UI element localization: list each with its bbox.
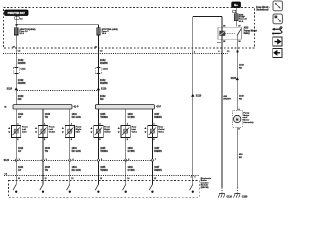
wire 2 labels upper xyxy=(100,59,106,62)
wire label 450 BK/WH on relay coil ground wire xyxy=(223,95,227,98)
wire bar to solenoid valve V1 xyxy=(15,109,17,126)
wire horizontal feed to fuse 2 xyxy=(16,24,98,26)
fuse F1 ABS Fuse 10 xyxy=(14,28,18,35)
pin B label below motor xyxy=(238,128,240,130)
svg-text:GY: GY xyxy=(18,170,22,172)
pin 4 label at relay output wire xyxy=(194,51,196,54)
connector stub under tag B+ xyxy=(233,10,236,13)
pin B label below valve V4 xyxy=(99,139,101,141)
relay K1 ABS pump motor relay (box) xyxy=(218,27,242,39)
solenoid valve V1 Front Left Inlet xyxy=(12,126,21,138)
power feed tag PWR/TRN BAT (black label box) xyxy=(5,10,28,16)
svg-text:S120: S120 xyxy=(4,160,10,162)
splice S110 arrow on wire 1 xyxy=(15,87,18,90)
pin A label above valve V3 xyxy=(71,123,73,126)
splice S185 arrow on pump feed wire xyxy=(236,77,239,80)
wire solenoid V5 return down to EBCM xyxy=(125,138,127,181)
module box EBCM (dashed outline) xyxy=(9,181,200,198)
wire label 1042 RD/BK (upper left) xyxy=(18,59,24,62)
svg-text:1042: 1042 xyxy=(18,59,24,62)
inline connector C115 on wire 1 (dashed box) xyxy=(13,68,19,74)
splice S110 arrow on relay output wire xyxy=(191,94,194,97)
icon zoom-extents (top right) xyxy=(273,1,282,11)
dotted splice link wire S110 to wire 2 xyxy=(17,90,98,92)
svg-text:PWR/TRN BAT: PWR/TRN BAT xyxy=(8,12,26,15)
wire solenoid V6 return down to EBCM xyxy=(151,138,153,181)
bus bar B (valve feed bar, pin 47-P) xyxy=(95,105,154,109)
svg-text:GY/BK: GY/BK xyxy=(128,151,136,153)
svg-text:TN: TN xyxy=(45,151,48,153)
svg-text:Fuse Block -: Fuse Block - xyxy=(256,7,270,9)
pin B label below valve V1 xyxy=(17,139,19,141)
dotted junction line S120 xyxy=(11,160,152,162)
driver switch Q6 inside EBCM xyxy=(151,181,153,185)
motor M1 ABS pump motor (dashed box with circle) xyxy=(232,111,242,128)
pin 11 label at connector line xyxy=(45,178,48,180)
bus bar A (valve feed bar, pin 41-P) xyxy=(13,105,72,109)
svg-text:BN/WH: BN/WH xyxy=(154,151,162,153)
wire bar to solenoid valve V2 xyxy=(42,109,44,126)
pin A label above valve V1 xyxy=(17,123,19,126)
svg-text:C115: C115 xyxy=(20,69,26,71)
junction diamond on test line at wire 4 xyxy=(97,159,100,162)
svg-text:B+: B+ xyxy=(234,3,238,7)
solenoid valve V5 Rear Inlet Valve xyxy=(121,126,130,138)
pin 2 label at EBCM wire connector crossing xyxy=(191,176,192,178)
svg-text:Rear: Rear xyxy=(132,127,137,129)
driver switch Q5 inside EBCM xyxy=(125,181,127,185)
svg-text:PUMP: PUMP xyxy=(239,17,246,19)
svg-text:and: and xyxy=(243,117,248,119)
svg-text:(EBCM): (EBCM) xyxy=(201,187,209,189)
inline connector C115 on wire 2 (dashed box) xyxy=(95,68,101,74)
pin 86 label xyxy=(223,26,226,28)
svg-text:GY/BK: GY/BK xyxy=(128,117,136,119)
icon previous page arrow xyxy=(273,48,282,57)
pin 36 / connector C2 label at wire 1 box exit xyxy=(12,46,15,48)
icon reroute arrows xyxy=(272,27,282,35)
pin B label below valve V3 xyxy=(71,139,73,141)
svg-text:DK GRN: DK GRN xyxy=(72,151,81,153)
power feed tag B+ (black label box top right) xyxy=(232,2,241,8)
fuse block box - Underhood Fuse Block (dashed outline) xyxy=(4,8,255,49)
relay actuation dotted link xyxy=(225,32,236,34)
svg-text:RD: RD xyxy=(18,98,22,101)
svg-text:TN/WH: TN/WH xyxy=(100,151,108,153)
svg-text:RD: RD xyxy=(100,98,104,101)
pin A label above motor xyxy=(238,108,240,111)
wire solenoid V3 return down to EBCM xyxy=(69,138,71,181)
wire solenoid V1 return down to EBCM xyxy=(15,138,17,181)
pin A label above valve V5 xyxy=(127,123,129,126)
wire label 450 BK xyxy=(239,153,243,156)
pin 10 label at connector line xyxy=(18,178,21,180)
relay coil xyxy=(220,31,225,36)
svg-text:1042: 1042 xyxy=(18,95,24,98)
svg-text:Fuse 10: Fuse 10 xyxy=(19,31,28,33)
pin A label above valve V6 xyxy=(153,123,155,126)
svg-text:Pump: Pump xyxy=(243,112,250,114)
svg-text:1042: 1042 xyxy=(100,59,106,62)
svg-text:RD: RD xyxy=(239,67,243,69)
junction diamond on test line at wire 2 xyxy=(42,159,45,162)
svg-text:G110: G110 xyxy=(226,196,232,198)
driver switch Q7 inside EBCM xyxy=(192,181,194,185)
svg-text:BK: BK xyxy=(239,157,243,159)
connector stub C4 under tag xyxy=(15,17,20,20)
node dot on pump feed at connector line xyxy=(236,50,238,52)
svg-text:RD: RD xyxy=(239,98,243,100)
pin 41 label left of bar A xyxy=(4,106,7,109)
wire bar to solenoid valve V6 xyxy=(151,109,153,126)
svg-text:2: 2 xyxy=(191,176,192,178)
wire label 1242 RD (lower) xyxy=(239,95,245,98)
pin C1 labels at fuse block exit xyxy=(218,50,220,53)
node junction dot at fuse 1 feed xyxy=(15,24,17,26)
relay name label xyxy=(244,26,249,29)
svg-text:GY: GY xyxy=(18,151,22,153)
driver switch Q1 inside EBCM xyxy=(15,181,17,185)
wire bar to solenoid valve V4 xyxy=(97,109,99,126)
svg-text:S110: S110 xyxy=(101,87,107,90)
svg-text:8: 8 xyxy=(194,176,195,178)
pin 13 label at connector line xyxy=(100,178,103,180)
splice S110 arrow on wire 2 xyxy=(97,87,100,90)
svg-text:G109: G109 xyxy=(242,196,248,198)
wire solenoid V2 return down to EBCM xyxy=(42,138,44,181)
junction diamond on test line at wire 3 xyxy=(68,159,71,162)
connector line C2 dotted above EBCM xyxy=(4,175,199,177)
icon zoom-window xyxy=(273,14,282,24)
junction diamond on test line at wire 1 xyxy=(15,159,18,162)
connector tick C1 below relay xyxy=(217,42,221,44)
pin 15 label at connector line xyxy=(154,178,157,180)
wire from tag down to bar A (left feed, circuit 1042) xyxy=(15,16,17,105)
svg-text:Valve: Valve xyxy=(132,131,138,133)
solenoid valve V4 Front Right Outlet xyxy=(94,126,103,138)
svg-text:S110: S110 xyxy=(7,87,13,90)
wire label 1042 RD/BK (below connector) xyxy=(18,79,24,82)
label Electronic Brake Control Module xyxy=(201,177,212,180)
svg-text:Valve: Valve xyxy=(158,131,164,133)
ground G109 xyxy=(236,188,238,194)
svg-text:RD/BK: RD/BK xyxy=(100,82,108,85)
svg-text:Module: Module xyxy=(201,185,209,187)
wire bar to solenoid valve V5 xyxy=(125,109,127,126)
solenoid valve V6 Rear Outlet Valve xyxy=(148,126,157,138)
fuse F3 ABS PUMP Fuse 34 xyxy=(234,14,238,21)
wire label 1042 RD (above bar A) xyxy=(18,95,24,98)
pin B label below valve V6 xyxy=(153,139,155,141)
junction diamond on test line at wire 5 xyxy=(124,159,127,162)
pin A label above valve V4 xyxy=(99,123,101,126)
svg-text:Underhood: Underhood xyxy=(256,10,269,12)
junction diamond on test line at wire 6 xyxy=(151,159,154,162)
svg-text:GY/BK: GY/BK xyxy=(128,170,136,172)
svg-text:DK GRN: DK GRN xyxy=(72,117,81,119)
svg-text:TN: TN xyxy=(45,170,48,172)
fuse F2 IGN Fuse 9 xyxy=(97,28,101,35)
connector line C2 (dotted) across harness xyxy=(3,53,228,55)
pin 85 label xyxy=(223,41,226,43)
svg-text:DK GRN: DK GRN xyxy=(72,170,81,172)
wire solenoid V4 return down to EBCM xyxy=(97,138,99,181)
pin 31 / connector C2 label at wire 2 box exit xyxy=(95,46,98,48)
svg-text:Rear: Rear xyxy=(158,127,163,129)
ground G110 xyxy=(221,188,223,194)
svg-text:S185: S185 xyxy=(231,78,237,80)
wire 2 label below connector xyxy=(100,79,106,82)
wire pump motor to ground G109 xyxy=(236,127,238,188)
svg-text:1042: 1042 xyxy=(100,95,106,98)
solenoid valve V3 Front Right Inlet xyxy=(65,126,74,138)
solenoid valve V2 Front Left Outlet xyxy=(38,126,47,138)
pin 30 label xyxy=(238,41,241,43)
relay switch contact xyxy=(237,29,241,36)
driver switch Q4 inside EBCM xyxy=(97,181,99,185)
svg-text:TN: TN xyxy=(45,117,48,119)
wire relay pin 30 down to pump motor xyxy=(236,36,238,111)
wire tag B+ down to fuse F3 xyxy=(235,8,237,27)
pin 87 label xyxy=(238,26,241,28)
wire coil feed from top run through relay pin 86 to ground xyxy=(221,17,223,188)
svg-text:RD/BK: RD/BK xyxy=(18,82,26,85)
wire label 1242 RD (upper) xyxy=(239,64,245,67)
wire relay output run (corner at top) to EBCM pin xyxy=(193,16,222,18)
svg-text:RD/BK: RD/BK xyxy=(18,62,26,65)
svg-text:GY: GY xyxy=(18,117,22,119)
pin 12 label at connector line xyxy=(71,178,74,180)
svg-text:BN/WH: BN/WH xyxy=(154,117,162,119)
svg-text:C115: C115 xyxy=(103,69,109,71)
svg-text:TN/WH: TN/WH xyxy=(100,170,108,172)
wire 2 label above bar B xyxy=(100,95,106,98)
svg-text:BK/WH: BK/WH xyxy=(223,99,231,101)
label Fuse Block - Underhood xyxy=(256,7,270,9)
svg-text:BN/WH: BN/WH xyxy=(154,170,162,172)
svg-text:1042: 1042 xyxy=(18,79,24,82)
svg-text:Brake: Brake xyxy=(201,180,208,182)
pin B label below valve V2 xyxy=(44,139,46,141)
pin B label below valve V5 xyxy=(127,139,129,141)
driver switch Q3 inside EBCM xyxy=(69,181,71,185)
icon next page arrow xyxy=(273,37,282,46)
pin 14 label at connector line xyxy=(127,177,130,180)
pin A label above valve V2 xyxy=(44,123,46,126)
svg-text:S110: S110 xyxy=(196,94,202,97)
svg-text:TN/WH: TN/WH xyxy=(100,117,108,119)
wire from feed down through fuse 2 to bar B (circuit 1042) xyxy=(97,25,99,105)
svg-text:RD/BK: RD/BK xyxy=(100,62,108,65)
driver switch Q2 inside EBCM xyxy=(42,181,44,185)
wire bar to solenoid valve V3 xyxy=(69,109,71,126)
svg-text:Fuse 9: Fuse 9 xyxy=(102,31,110,33)
svg-text:Relay: Relay xyxy=(244,33,251,35)
svg-text:1042: 1042 xyxy=(100,79,106,82)
